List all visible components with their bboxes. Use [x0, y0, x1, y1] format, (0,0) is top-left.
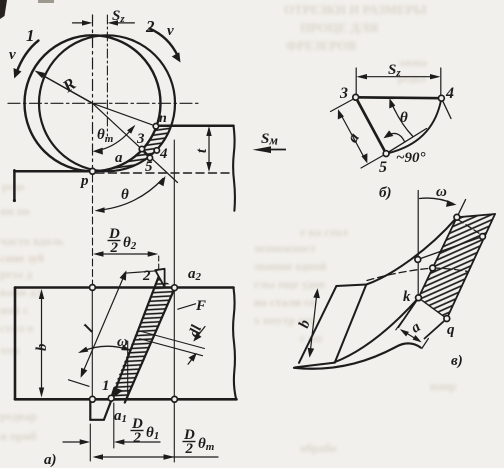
svg-text:p: p: [79, 173, 89, 189]
node on curve at cutting edge: [415, 257, 421, 263]
node 3: [353, 94, 359, 100]
a extension tick lower left: [396, 321, 403, 330]
svg-text:на стали со: на стали со: [254, 295, 315, 309]
node q: [444, 316, 450, 322]
svg-text:4: 4: [159, 146, 168, 162]
svg-text:2: 2: [110, 240, 119, 256]
svg-text:обрабо: обрабо: [300, 441, 337, 455]
theta angle arc at 4: [391, 101, 413, 136]
svg-text:F: F: [195, 298, 206, 314]
tooth face segment 3-5: [142, 149, 150, 158]
a extension tick lower right: [422, 339, 429, 349]
svg-text:2: 2: [145, 17, 155, 36]
svg-text:сние зуб: сние зуб: [0, 251, 44, 265]
long vertical reference line through 5: [173, 140, 175, 462]
cutter circle position 1: [25, 35, 161, 171]
labels of top-left diagram: [9, 8, 278, 203]
omega vertical reference line: [417, 191, 419, 297]
node on bottom edge at theta-m line: [172, 396, 178, 402]
extension dash to point 2: [158, 256, 160, 272]
node 1 on bottom edge: [108, 395, 114, 401]
svg-text:v: v: [167, 23, 174, 39]
workpiece block left edge: [14, 288, 17, 400]
svg-text:q: q: [447, 322, 455, 338]
svg-text:2: 2: [185, 441, 194, 457]
svg-text:часто вдоль: часто вдоль: [0, 234, 65, 248]
svg-text:ОТРЕЗКИ И РАЗМЕРЫ: ОТРЕЗКИ И РАЗМЕРЫ: [284, 2, 427, 17]
dl arrow below: [188, 356, 195, 365]
omega angle arc: [420, 198, 454, 203]
svg-text:5: 5: [145, 159, 153, 175]
workpiece top surface: [156, 124, 234, 127]
machined surface through p: [14, 170, 92, 173]
workpiece left edge tick: [13, 170, 16, 199]
svg-text:стал о: стал о: [0, 321, 33, 335]
node 4: [439, 95, 445, 101]
svg-text:а): а): [44, 452, 57, 468]
radius line O through 3 to 5 extended: [93, 103, 178, 182]
depth of cut t dimension: [208, 129, 210, 170]
Sz dimension extension line above 4: [440, 68, 442, 95]
svg-text:1: 1: [26, 26, 35, 45]
svg-text:3: 3: [136, 131, 145, 147]
node 5: [383, 151, 389, 157]
omega angle arc: [81, 346, 130, 352]
node on dashed curve at strip edge: [430, 265, 436, 271]
vertical centerline through p: [92, 15, 94, 171]
svg-text:ни по: ни по: [0, 204, 30, 218]
svg-text:θ: θ: [400, 110, 408, 126]
svg-text:е на стол: е на стол: [300, 225, 348, 239]
workpiece block right wavy edge: [233, 288, 236, 400]
band left line S1: [299, 286, 336, 363]
helix strip hatch: [419, 214, 496, 319]
svg-text:Sм: Sм: [261, 131, 278, 148]
strip left edge line 2-1 extended: [104, 277, 159, 420]
extension line at 1 for l: [69, 380, 90, 387]
svg-text:a: a: [115, 150, 123, 166]
right angle arc at 5: [386, 133, 405, 141]
fraction D/2 theta2 label: [108, 226, 137, 256]
svg-text:v: v: [9, 47, 16, 63]
workpiece block top edge: [15, 286, 234, 289]
extension line right of 1: [113, 403, 115, 448]
D/2 theta1 dimension right arrow: [117, 441, 160, 443]
dashed curve through strip: [433, 268, 468, 272]
svg-text:4: 4: [445, 85, 454, 102]
dl element lines: [142, 332, 205, 349]
fraction D/2 theta-m label: [183, 427, 215, 457]
svg-text:ПРОЦЕ ДЛЯ: ПРОЦЕ ДЛЯ: [300, 20, 379, 35]
tooth triangle at 1: [109, 387, 123, 401]
fraction D/2 theta1 label: [131, 416, 159, 446]
l length dimension line: [82, 273, 126, 376]
strip right edge: [125, 288, 175, 403]
tangent extension below 4: [441, 98, 451, 118]
workpiece block bottom edge: [15, 398, 237, 401]
b width dimension arrow: [41, 294, 43, 393]
strip left edge tip below k: [398, 298, 418, 328]
svg-text:k: k: [403, 289, 411, 305]
node on top edge at p line: [90, 285, 96, 291]
strip left edge: [419, 217, 457, 297]
svg-text:звании одной: звании одной: [254, 259, 327, 273]
svg-text:5: 5: [379, 159, 387, 176]
svg-text:2: 2: [142, 268, 151, 284]
dashed tooth line near strip top: [458, 220, 481, 235]
chip strip hatch area: [109, 277, 175, 403]
workpiece right wavy edge: [233, 126, 235, 211]
svg-text:1: 1: [102, 378, 110, 394]
svg-text:n: n: [159, 111, 167, 126]
a thickness dimension arrows: [402, 330, 420, 341]
dashed machined level line: [96, 172, 230, 174]
vertical dash-dot centerline position 2: [106, 15, 108, 136]
tooth triangle at 2: [155, 269, 164, 287]
chord 3-4: [356, 96, 442, 100]
svg-text:б): б): [379, 185, 391, 201]
tooth face 3-5: [356, 97, 386, 153]
upper surface curve: [366, 217, 457, 284]
strip right edge: [447, 214, 495, 319]
extension line below notch: [89, 424, 91, 461]
svg-text:в): в): [451, 353, 463, 369]
extension line from point 2 for l dimension: [125, 271, 158, 273]
node 4: [154, 148, 159, 153]
svg-text:лжны: лжны: [398, 57, 427, 69]
svg-text:редвар: редвар: [0, 409, 37, 423]
theta-m angle arc: [97, 127, 135, 151]
svg-text:ω: ω: [117, 334, 128, 350]
vertical reference line p continued: [92, 175, 94, 285]
band right line S2: [335, 285, 366, 363]
a thickness extension from 5: [361, 156, 383, 169]
b dimension double arrow: [310, 292, 317, 354]
svg-text:θ: θ: [121, 187, 129, 203]
radius R arrow: [42, 75, 93, 103]
svg-text:тем: тем: [0, 343, 19, 357]
middle surface curve to k: [334, 298, 418, 362]
svg-text:глы еще удов: глы еще удов: [254, 277, 326, 291]
svg-text:2: 2: [133, 430, 142, 446]
hatch boundary k-q: [419, 298, 447, 319]
node at top of strip: [454, 214, 460, 220]
lower surface curve: [294, 343, 421, 368]
svg-text:реза д: реза д: [0, 267, 32, 281]
svg-text:ω: ω: [436, 184, 447, 200]
svg-text:и приб: и приб: [0, 429, 36, 443]
D/2 theta1 dimension left arrow: [63, 441, 87, 443]
arc 4-5 previous tooth path: [386, 98, 441, 153]
radius line O to n: [93, 103, 156, 126]
D/2 theta2 dimension line: [97, 253, 155, 255]
feed arrow Sm: [253, 146, 287, 153]
strip right edge tip below q: [425, 319, 447, 339]
D/2 theta-m dimension line: [95, 456, 218, 458]
node k: [416, 295, 422, 301]
node 5: [147, 155, 152, 160]
node n: [153, 124, 158, 129]
strip top edge: [457, 214, 495, 217]
node 3: [139, 146, 144, 151]
Sz dimension line: [359, 76, 438, 78]
svg-text:напр: напр: [430, 379, 457, 393]
Sz dimension extension line above 3: [355, 68, 357, 94]
cutter circle position 2: [39, 35, 175, 171]
a2 node circle on top edge: [172, 285, 178, 291]
notch horizontal: [90, 419, 104, 421]
omega reference line above strip: [457, 200, 466, 218]
svg-text:редко: редко: [398, 73, 427, 85]
Sz feed dimension line: [73, 22, 90, 24]
svg-text:~90°: ~90°: [396, 150, 426, 166]
horizontal dash-dot centerline: [8, 102, 199, 104]
F leader line: [178, 304, 196, 309]
svg-text:ФРЕЗЕРОВ: ФРЕЗЕРОВ: [286, 38, 356, 53]
chip crescent hatch: [93, 126, 172, 172]
node on strip right edge: [480, 234, 486, 240]
svg-text:зозможност: зозможност: [254, 241, 316, 255]
band top connector: [336, 285, 366, 287]
a dimension double arrow: [340, 113, 366, 161]
node on bottom edge at p line: [90, 396, 96, 402]
omega vertical reference: [127, 341, 129, 398]
tangent at 5: [386, 129, 426, 154]
svg-text:3: 3: [339, 85, 348, 102]
band bottom connector: [295, 363, 335, 368]
a thickness extension from 3: [331, 100, 353, 112]
notch vertical below 1: [89, 400, 91, 420]
svg-text:b: b: [34, 343, 50, 351]
contact angle theta arc: [98, 179, 163, 211]
dl arrow above: [196, 327, 206, 339]
node p: [90, 168, 96, 174]
rotation arrow v position 1: [17, 41, 39, 73]
dashed feed curve: [367, 268, 433, 281]
rotation arrow v position 2: [150, 29, 179, 57]
cutting edge transversal line: [418, 237, 483, 260]
scan artifact top-left corner: [0, 0, 7, 19]
